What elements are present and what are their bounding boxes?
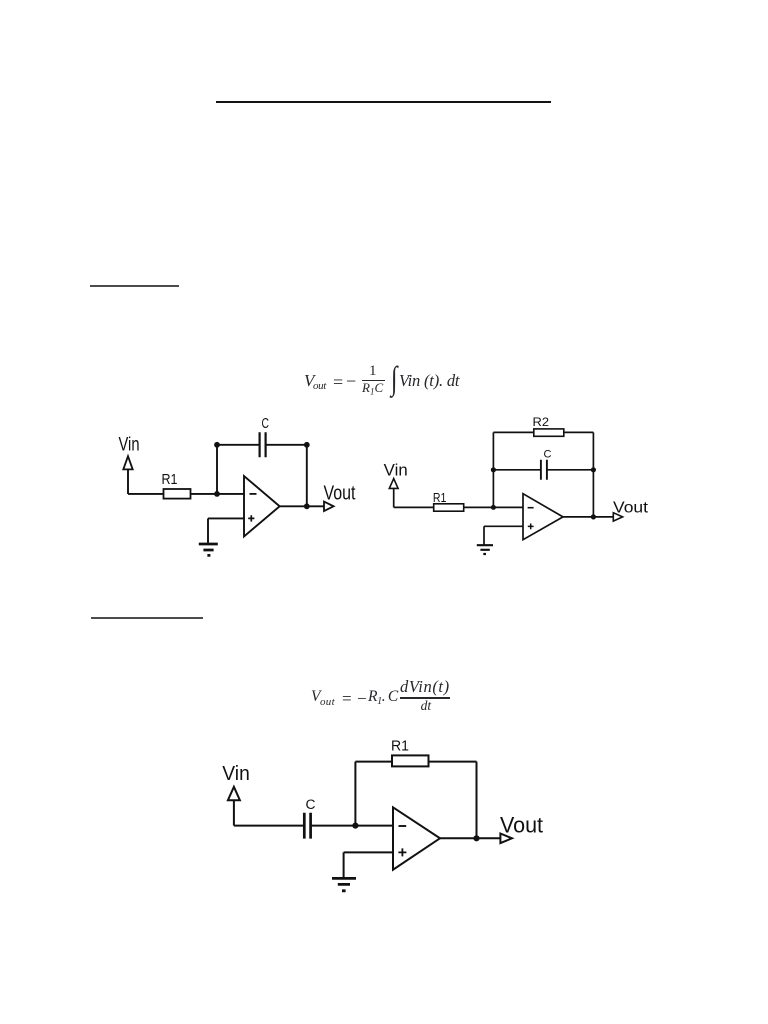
op-amp U1 (circuit 1) [244, 476, 280, 537]
resistor R1 (circuit 2) [434, 504, 464, 511]
wire: R1 to feedback top right (circuit 3) [429, 761, 477, 763]
wire: op-amp output (circuit 2) [563, 516, 613, 518]
wire: Vin vertical drop (circuit 3) [233, 800, 235, 825]
wire: Vin to R1 [128, 493, 164, 495]
section heading underline 1 [90, 285, 179, 287]
resistor R1 (circuit 3) [392, 755, 429, 766]
wire: drop to ground (circuit 3) [343, 852, 345, 877]
junction: output node (circuit 3) [473, 835, 479, 841]
wire: R1 to op-amp inverting input [191, 493, 245, 495]
pin minus (circuit 3) [399, 825, 407, 827]
resistor R1 (circuit 1) [164, 489, 191, 499]
wire: drop to ground (circuit 1) [207, 518, 209, 543]
svg-text:R2: R2 [533, 415, 550, 429]
input port arrow Vin (circuit 3) [228, 787, 240, 800]
wire: op-amp output (circuit 3) [440, 837, 500, 839]
capacitor C (circuit 1) [260, 432, 266, 457]
wire: feedback riser left (circuit 3) [354, 762, 356, 826]
junction: inverting input node (circuit 2) [491, 505, 496, 510]
junction: C branch right (circuit 2) [591, 467, 596, 472]
op-amp U2 (circuit 2) [523, 494, 563, 540]
wire: feedback riser left [216, 445, 218, 494]
capacitor C (circuit 3) [304, 813, 310, 839]
svg-text:Vin: Vin [222, 762, 250, 785]
resistor R2 (circuit 2) [534, 429, 564, 436]
wire: C branch right (circuit 2) [547, 469, 594, 471]
output port arrow Vout (circuit 1) [324, 502, 334, 511]
svg-text:Vin: Vin [119, 435, 140, 456]
junction: inverting input node (circuit 3) [352, 823, 358, 829]
wire: non-inverting input (circuit 2) [484, 525, 523, 527]
wire: R2 branch left (circuit 2) [493, 431, 533, 433]
junction: feedback top-right (circuit 1) [304, 442, 310, 448]
wire: non-inverting input [208, 517, 244, 519]
wire: capacitor C to feedback top-right [266, 444, 307, 446]
junction: inverting input node (circuit 1) [214, 491, 220, 497]
wire: feedback riser right (down to output) [306, 445, 308, 507]
svg-text:Vout: Vout [324, 483, 356, 505]
title underline [216, 101, 551, 103]
capacitor C (circuit 2) [541, 460, 547, 480]
svg-text:C: C [262, 416, 270, 432]
wire: top-left node to capacitor C [217, 444, 259, 446]
input port arrow Vin (circuit 1) [123, 456, 132, 469]
junction: output node (circuit 1) [304, 503, 310, 509]
svg-text:C: C [544, 449, 552, 461]
wire: R1 to op-amp inverting input (circuit 2) [464, 506, 523, 508]
wire: feedback riser left (circuit 2) [492, 432, 494, 507]
output port arrow Vout (circuit 2) [613, 513, 622, 521]
op-amp U3 (circuit 3) [393, 807, 440, 869]
ground (circuit 1) [199, 544, 218, 555]
svg-text:Vout: Vout [500, 813, 543, 838]
section heading underline 2 [91, 617, 203, 619]
wire: Vin to capacitor C (circuit 3) [234, 825, 304, 827]
svg-text:Vin: Vin [384, 461, 408, 479]
input port arrow Vin (circuit 2) [389, 479, 398, 489]
junction: feedback top-left (circuit 1) [214, 442, 220, 448]
wire: Vin vertical drop (circuit 2) [393, 488, 395, 507]
pin plus (circuit 1) [248, 515, 254, 521]
formula 1: Vout = -1/(R1C) * integral of Vin(t) dt [0, 0, 1, 1]
wire: feedback top left to R1 (circuit 3) [355, 761, 392, 763]
output port arrow Vout (circuit 3) [500, 834, 512, 844]
wire: feedback riser right (circuit 3) [476, 762, 478, 839]
wire: Vin to R1 (circuit 2) [394, 506, 434, 508]
formula 2: Vout = -R1.C dVin(t)/dt [0, 0, 1, 1]
wire: Vin vertical drop [127, 469, 129, 494]
junction: C branch left (circuit 2) [491, 467, 496, 472]
pin minus (circuit 1) [250, 493, 257, 495]
wire: drop to ground (circuit 2) [483, 526, 485, 544]
wire: R2 branch right (circuit 2) [564, 431, 594, 433]
svg-text:R1: R1 [162, 472, 178, 488]
pin plus (circuit 2) [528, 524, 534, 530]
svg-text:R1: R1 [391, 739, 409, 755]
wire: capacitor to op-amp inverting input (circuit 3) [311, 825, 393, 827]
ground (circuit 3) [332, 878, 356, 890]
svg-text:R1: R1 [433, 490, 447, 505]
svg-text:C: C [306, 797, 316, 812]
svg-text:Vout: Vout [613, 500, 649, 517]
junction: output node (circuit 2) [591, 514, 596, 519]
wire: op-amp output (circuit 1) [280, 505, 324, 507]
pin minus (circuit 2) [528, 507, 534, 509]
pin plus (circuit 3) [398, 848, 406, 856]
wire: feedback riser right (circuit 2) [592, 432, 594, 517]
wire: non-inverting input (circuit 3) [344, 851, 393, 853]
ground (circuit 2) [477, 545, 493, 554]
wire: C branch left (circuit 2) [493, 469, 540, 471]
